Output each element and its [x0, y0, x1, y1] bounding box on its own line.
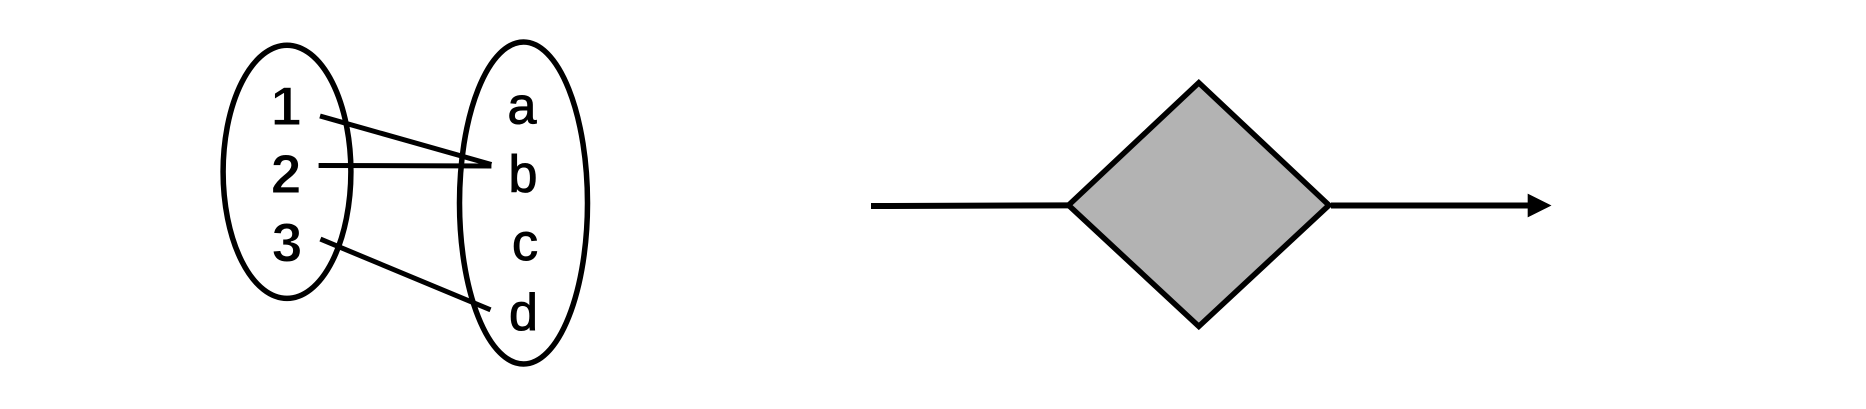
svg-text:1: 1 — [271, 75, 302, 137]
mapping line 1 to b — [320, 116, 491, 165]
svg-text:c: c — [512, 214, 538, 272]
right set ellipse (codomain {a,b,c,d}) — [460, 42, 588, 364]
mapping line 3 to d — [320, 239, 490, 310]
svg-text:3: 3 — [272, 211, 303, 273]
left set ellipse (domain {1,2,3}) — [223, 45, 351, 298]
mapping line 2 to b — [319, 163, 492, 169]
function diamond — [1069, 83, 1330, 327]
arrowhead — [1528, 194, 1552, 218]
output wire — [1331, 203, 1530, 209]
svg-text:b: b — [509, 145, 538, 203]
input wire — [871, 202, 1068, 209]
svg-text:a: a — [508, 77, 537, 135]
svg-text:2: 2 — [271, 143, 302, 205]
svg-text:d: d — [509, 284, 538, 342]
